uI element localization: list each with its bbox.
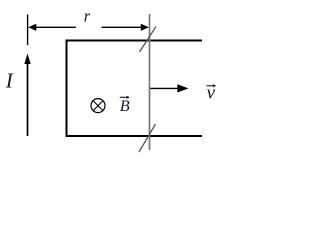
svg-text:B: B	[120, 96, 130, 115]
svg-text:r: r	[84, 7, 91, 26]
svg-text:I: I	[5, 69, 14, 93]
